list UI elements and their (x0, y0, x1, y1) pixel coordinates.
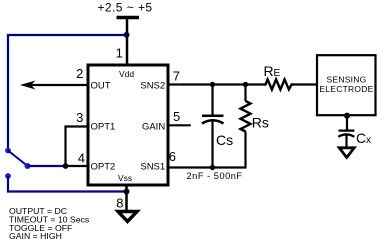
capacitor Cs (202, 85, 224, 168)
svg-text:Cs: Cs (216, 132, 233, 148)
wire (blue) bottom contact to Vss junction (8, 176, 127, 192)
svg-text:SNS1: SNS1 (140, 161, 165, 172)
svg-text:GAIN: GAIN (142, 122, 165, 133)
svg-text:8: 8 (116, 196, 123, 211)
svg-text:4: 4 (78, 150, 85, 165)
wire RE to electrode (294, 83, 316, 85)
svg-text:2: 2 (76, 66, 83, 81)
wire OUT pin 2 (26, 84, 88, 86)
wire Vss pin 8 to ground (125, 185, 128, 211)
svg-text:Vdd: Vdd (119, 69, 134, 79)
Vdd supply bar (117, 16, 140, 20)
junction dot OPT1/OPT2/switch (63, 163, 69, 169)
svg-text:Vss: Vss (118, 173, 132, 183)
resistor RE (264, 80, 295, 90)
svg-text:5: 5 (173, 109, 180, 124)
switch S1 blade (8, 151, 28, 167)
switch S1 pole (25, 163, 31, 169)
svg-text:OPT2: OPT2 (91, 161, 116, 172)
switch S1 bottom contact (5, 173, 11, 179)
svg-text:R: R (264, 63, 274, 79)
svg-text:Rs: Rs (252, 114, 269, 130)
svg-text:OUT: OUT (91, 80, 111, 91)
svg-text:7: 7 (173, 68, 180, 83)
svg-text:GAIN = HIGH: GAIN = HIGH (9, 231, 62, 241)
wire (blue) pole to OPT junction (28, 165, 66, 167)
svg-text:x: x (366, 135, 371, 146)
sensing electrode box (317, 55, 376, 115)
wire SNS2 pin 7 (168, 83, 264, 85)
svg-text:ELECTRODE: ELECTRODE (319, 84, 373, 94)
junction dot electrode bottom (344, 113, 350, 119)
capacitor Cx (338, 114, 354, 147)
resistor Rs (241, 85, 251, 168)
junction dot Cs top (210, 82, 215, 87)
svg-text:SNS2: SNS2 (140, 80, 165, 91)
svg-text:OPT1: OPT1 (91, 122, 116, 133)
svg-text:2nF - 500nF: 2nF - 500nF (187, 171, 243, 181)
wire OPT1 pin 3 (66, 127, 89, 167)
svg-text:+2.5 ~ +5: +2.5 ~ +5 (97, 0, 152, 14)
wire (blue) Vdd junction to left rail top (8, 35, 127, 150)
switch S1 top contact (5, 148, 11, 154)
junction dot Vdd / blue rail (124, 32, 130, 38)
svg-text:SENSING: SENSING (326, 75, 366, 85)
stub wire GAIN pin 5 (168, 124, 191, 126)
svg-text:C: C (356, 130, 366, 146)
wire OPT2 pin 4 (64, 165, 88, 167)
svg-text:6: 6 (169, 149, 176, 164)
ground symbol (Vss) (118, 212, 137, 222)
arrowhead OUT (20, 81, 36, 90)
junction dot Vss/blue rail (124, 189, 130, 195)
junction dot Cs bottom (210, 165, 215, 170)
wire SNS1 pin 6 (168, 166, 247, 168)
IC U1 body (88, 65, 168, 185)
ground symbol (Cx) (339, 148, 354, 158)
svg-text:1: 1 (116, 46, 123, 61)
svg-text:E: E (274, 68, 281, 79)
wire supply bar to pin 1 (126, 18, 129, 65)
svg-text:3: 3 (76, 110, 83, 125)
junction dot Rs/RE (243, 82, 248, 87)
